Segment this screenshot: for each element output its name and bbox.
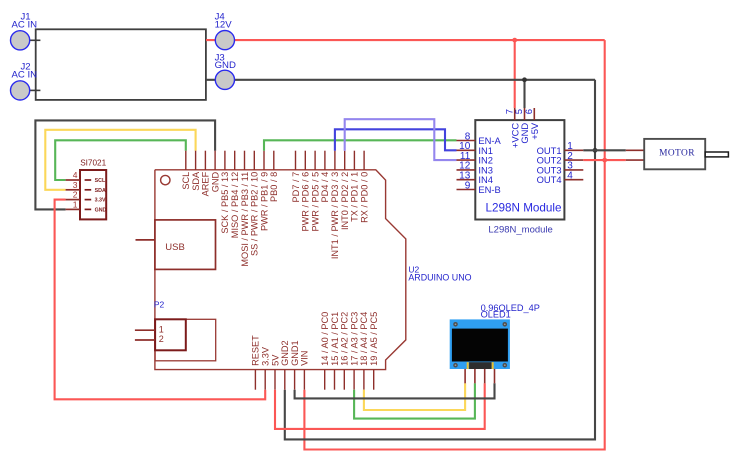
svg-text:2: 2 <box>73 190 78 200</box>
L298N right pins OUT1..OUT4 <box>537 141 584 185</box>
svg-text:SDA: SDA <box>95 188 106 194</box>
svg-text:PD7 / 7: PD7 / 7 <box>291 172 301 203</box>
wire EN-A green (pin9 to L298N EN-A) <box>264 140 457 150</box>
svg-text:GND2: GND2 <box>280 340 290 366</box>
connector J2 (AC IN) <box>11 61 41 100</box>
svg-text:TX / PD1 / 1: TX / PD1 / 1 <box>350 172 360 222</box>
svg-text:GND1: GND1 <box>290 340 300 366</box>
svg-text:16 / A2 / PC2: 16 / A2 / PC2 <box>340 312 350 366</box>
wire 12V red (J4 to +VCC and right-side drop) <box>206 40 605 449</box>
arduino top pins <box>181 151 369 267</box>
OLED1 0.96OLED_4P display module <box>450 303 540 369</box>
junction 12V at +VCC <box>512 38 517 43</box>
connector J3 (GND) <box>215 52 236 89</box>
wire OLED SDA green (pin17/A3 to OLED pin2) <box>354 383 475 418</box>
svg-text:PWR / PD6 / 6: PWR / PD6 / 6 <box>301 172 311 232</box>
AC power block <box>36 29 206 100</box>
connector J4 (12V) <box>215 12 235 50</box>
svg-text:OUT4: OUT4 <box>537 174 562 185</box>
svg-text:AC IN: AC IN <box>12 19 38 30</box>
svg-text:4: 4 <box>73 170 78 180</box>
svg-text:4: 4 <box>567 171 573 182</box>
junction GND at L298N GND <box>522 77 527 82</box>
sensor SI7021 <box>66 159 107 220</box>
L298N left pins EN-A..EN-B <box>457 131 502 195</box>
svg-text:ARDUINO UNO: ARDUINO UNO <box>408 273 471 283</box>
svg-text:MOSI / PWR / PB3 / 11: MOSI / PWR / PB3 / 11 <box>240 172 250 267</box>
svg-text:PWR / PD5 / 5: PWR / PD5 / 5 <box>310 172 320 232</box>
svg-text:SI7021: SI7021 <box>80 159 106 168</box>
svg-text:6: 6 <box>524 109 535 114</box>
svg-text:MISO / PB4 / 12: MISO / PB4 / 12 <box>230 172 240 238</box>
svg-text:SDA: SDA <box>191 171 201 191</box>
svg-text:USB: USB <box>165 242 185 253</box>
svg-text:12V: 12V <box>215 19 233 30</box>
svg-text:3.3V: 3.3V <box>95 198 106 204</box>
svg-text:1: 1 <box>73 199 78 209</box>
svg-text:15 / A1 / PC1: 15 / A1 / PC1 <box>330 312 340 366</box>
svg-text:VIN: VIN <box>300 351 310 366</box>
svg-text:2: 2 <box>159 334 164 344</box>
svg-text:GND: GND <box>95 207 107 213</box>
svg-text:MOTOR: MOTOR <box>659 148 695 158</box>
wire OLED SCL yellow (pin18/A4 to OLED pin1) <box>364 383 465 410</box>
svg-text:17 / A3 / PC3: 17 / A3 / PC3 <box>349 312 359 366</box>
junction OUT2/12V-drop <box>602 158 607 163</box>
motor M1 <box>626 139 729 169</box>
svg-text:INT0 / PD2 / 2: INT0 / PD2 / 2 <box>340 172 350 230</box>
arduino bottom pins <box>251 312 379 390</box>
junction OUT1/GND-drop <box>593 148 598 153</box>
svg-text:5V: 5V <box>270 354 280 366</box>
svg-text:RESET: RESET <box>251 335 261 366</box>
svg-text:SCL: SCL <box>95 178 106 184</box>
svg-text:1: 1 <box>159 324 164 334</box>
arduino USB box <box>136 220 216 270</box>
svg-text:SS / PWR / PB2 / 10: SS / PWR / PB2 / 10 <box>250 172 260 256</box>
connector J1 (AC IN) <box>11 11 41 50</box>
svg-text:AC IN: AC IN <box>12 69 38 80</box>
wire SCL green (SI7021 pin4 to Arduino SCL) <box>55 140 186 180</box>
wire GND black (J3 to L298N GND and bottom) <box>206 80 595 440</box>
svg-text:GND: GND <box>215 60 236 71</box>
svg-text:19 / A5 / PC5: 19 / A5 / PC5 <box>369 312 379 366</box>
wire IN2 lavender (PD2 to L298N IN2) <box>345 119 457 160</box>
wire OLED VCC red (5V to OLED pin3) <box>275 383 485 429</box>
wire SDA yellow (SI7021 pin3 to Arduino SDA) <box>45 130 195 190</box>
module L298N U? <box>475 120 564 235</box>
svg-text:9: 9 <box>465 180 471 191</box>
arduino U2 body outline <box>155 170 472 370</box>
wire OLED GND gray (GND1 to OLED pin4) <box>295 383 495 398</box>
svg-text:PWR / PB1 / 9: PWR / PB1 / 9 <box>259 172 269 231</box>
OLED pin stubs <box>465 369 494 383</box>
wire OUT2 red to motor <box>583 159 626 161</box>
svg-text:SCK / PB5 / 13: SCK / PB5 / 13 <box>220 172 230 234</box>
svg-text:OLED1: OLED1 <box>481 309 511 319</box>
svg-text:14 / A0 / PC0: 14 / A0 / PC0 <box>320 312 330 366</box>
svg-text:18 / A4 / PC4: 18 / A4 / PC4 <box>359 312 369 366</box>
svg-text:PD4 / 4: PD4 / 4 <box>320 172 330 203</box>
svg-text:+5V: +5V <box>529 122 540 140</box>
svg-text:L298N_module: L298N_module <box>488 224 552 235</box>
svg-text:GND: GND <box>210 171 220 192</box>
svg-text:SCL: SCL <box>181 172 191 190</box>
svg-text:L298N Module: L298N Module <box>486 202 562 215</box>
wire IN1 blue (PD3 to L298N IN1) <box>335 129 457 150</box>
wire GND gray (SI7021 pin1 to Arduino GND) <box>35 120 215 209</box>
svg-text:AREF: AREF <box>201 171 211 196</box>
svg-text:3: 3 <box>73 180 78 190</box>
svg-text:RX / PD0 / 0: RX / PD0 / 0 <box>359 172 369 223</box>
wire OUT1 gray to motor <box>583 149 626 151</box>
wire 3.3V red (SI7021 pin2 to Arduino 3.3V) <box>55 200 266 400</box>
connector P2 <box>135 300 216 361</box>
svg-text:3.3V: 3.3V <box>261 346 271 366</box>
svg-text:PB0 / 8: PB0 / 8 <box>269 172 279 202</box>
svg-text:EN-B: EN-B <box>478 184 500 195</box>
svg-text:P2: P2 <box>154 300 165 310</box>
svg-text:INT1 / PWR / PD3 / 3: INT1 / PWR / PD3 / 3 <box>330 172 340 259</box>
L298N top pins +VCC GND +5V <box>504 108 540 148</box>
